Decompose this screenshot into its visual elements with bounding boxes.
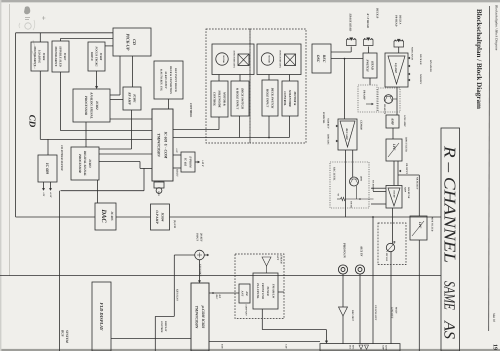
svg-text:CONTROL: CONTROL (189, 103, 193, 117)
AM loop ant box (239, 284, 250, 303)
svg-text:R – CHANNEL: R – CHANNEL (440, 145, 459, 263)
wire head switch to pb amp (369, 78, 371, 85)
bias +B line with VR601 (346, 198, 374, 200)
svg-text:MOTOR &: MOTOR & (293, 91, 297, 107)
deck A motor (216, 53, 228, 65)
deck B motor solenoid control (282, 81, 298, 116)
svg-text:RF AMP: RF AMP (127, 92, 131, 105)
svg-text:FRONT END: FRONT END (261, 283, 264, 299)
svg-text:AUX IN: AUX IN (360, 245, 364, 257)
svg-text:CD LINE OUT: CD LINE OUT (374, 305, 377, 321)
svg-text:REC AMP: REC AMP (345, 128, 348, 140)
svg-text:FOCUS TRCKG: FOCUS TRCKG (95, 47, 99, 68)
svg-text:PB MUTE: PB MUTE (383, 104, 386, 115)
wire processor to RF amp (110, 99, 123, 101)
svg-text:DECK B: DECK B (376, 7, 379, 18)
svg-text:TMP47C850N: TMP47C850N (157, 133, 161, 157)
svg-text:Blockschaltplan / Block Diagra: Blockschaltplan / Block Diagram (495, 5, 499, 51)
svg-text:+12 V: +12 V (201, 160, 204, 167)
svg-text:ANT: ANT (240, 290, 243, 297)
rec out open arrow (339, 307, 348, 316)
svg-text:CD: CD (28, 115, 38, 128)
svg-text:SYSTEM: SYSTEM (65, 330, 69, 344)
wire analog processor to ucom (110, 118, 152, 120)
svg-text:IC 609: IC 609 (45, 162, 50, 174)
u-com IC601 TMP47C850N (152, 109, 173, 181)
svg-text:SOLENOIDE: SOLENOIDE (288, 90, 292, 107)
svg-text:IC603: IC603 (88, 158, 92, 168)
svg-text:PB VOL: PB VOL (385, 253, 388, 262)
svg-text:IC 602: IC 602 (184, 157, 188, 167)
wire rec amp to rec level transistor (352, 150, 354, 177)
aux in jack (355, 265, 364, 274)
svg-text:PROCESSOR: PROCESSOR (78, 154, 82, 173)
deck B mech links (268, 75, 270, 81)
E2PROM IC602 (181, 152, 195, 172)
svg-text:B/P: B/P (218, 294, 221, 299)
svg-text:CONTROL: CONTROL (160, 321, 163, 333)
svg-text:AM: AM (245, 290, 248, 296)
svg-text:DISPLAY: DISPLAY (164, 320, 167, 332)
svg-text:MPX FILTER: MPX FILTER (431, 216, 434, 232)
wire tuner down to selector (261, 309, 263, 330)
svg-text:IC 601 U - COM: IC 601 U - COM (164, 131, 168, 159)
svg-text:BUS: BUS (61, 329, 65, 337)
margin rule right (488, 6, 491, 331)
svg-text:DECK SWITCH: DECK SWITCH (271, 87, 275, 109)
wire servo bus upper (60, 130, 152, 132)
tuner dashed enclosure (235, 254, 284, 319)
wire fld to ucom2 (111, 338, 191, 340)
key scan line (173, 255, 175, 316)
svg-text:DECK & CD POSITION: DECK & CD POSITION (169, 65, 172, 95)
transistor Q605 (350, 177, 359, 186)
volume dashed box (378, 223, 406, 265)
svg-text:PROCESSOR: PROCESSOR (84, 96, 88, 116)
svg-text:DECK A: DECK A (399, 14, 402, 25)
svg-text:DOLBY: DOLBY (393, 189, 396, 198)
svg-text:Blockschaltplan / Block Diagra: Blockschaltplan / Block Diagram (475, 9, 483, 109)
wire dsp to ucom 1 (99, 153, 152, 155)
dolby nr box (386, 186, 402, 209)
deck A motor solenoid control (211, 81, 228, 117)
svg-text:REC OUT: REC OUT (351, 310, 354, 321)
svg-text:IC604: IC604 (161, 212, 165, 222)
FLD display (92, 282, 111, 351)
page border left (8, 4, 10, 276)
scan edge band left (0, 0, 1, 351)
svg-text:μ-COM IC603: μ-COM IC603 (201, 305, 205, 329)
wire dsp to ucom 2 (99, 161, 140, 163)
svg-text:OSC: OSC (316, 55, 320, 63)
wire pickup feed 3 (105, 45, 113, 47)
scan edge band bottom (0, 349, 500, 351)
IC604 op amp (151, 204, 170, 230)
+12V stub (195, 161, 198, 163)
svg-text:Mai 93: Mai 93 (492, 312, 496, 323)
wire rec amp down to L-CH line (344, 150, 346, 217)
stamp smudge top-left (19, 6, 35, 69)
antenna symbol (262, 257, 271, 266)
wire RF amp to DSP (131, 110, 133, 149)
svg-text:32 KEY INPUT: 32 KEY INPUT (164, 70, 167, 89)
wire ic606 down to bus (39, 71, 41, 139)
wire left loop vertical (15, 33, 17, 217)
bias filter lpf box (386, 139, 402, 161)
wire dolby to volume (392, 208, 394, 243)
wire rec osc to erase head (331, 51, 351, 53)
svg-text:IC601: IC601 (133, 93, 137, 103)
svg-text:MOTOR: MOTOR (222, 54, 225, 63)
svg-text:VR 601: VR 601 (350, 201, 353, 208)
section divider line (0, 275, 441, 277)
svg-text:KEY SCAN: KEY SCAN (176, 288, 179, 301)
E2PROM links (173, 154, 181, 156)
svg-text:BIAS FILTER: BIAS FILTER (405, 136, 408, 152)
svg-text:FLD DISPLAY: FLD DISPLAY (99, 303, 104, 332)
svg-text:Q605: Q605 (360, 176, 363, 182)
IC608 focus tracking drive (88, 42, 105, 71)
svg-text:SEL: SEL (349, 345, 352, 350)
svg-text:(L)-CH: (L)-CH (173, 220, 176, 229)
svg-text:IC608: IC608 (99, 52, 103, 61)
wire ucom2 to tuner (209, 292, 239, 294)
ic609 -15V stub (50, 182, 52, 189)
IC603 digital signal processor (71, 147, 99, 180)
svg-text:DECK SWITCH: DECK SWITCH (241, 87, 245, 109)
wire lpf to dolby pair (393, 161, 395, 186)
28-key input connector (195, 250, 205, 260)
svg-text:+5V: +5V (42, 192, 45, 197)
phono in jack (338, 265, 347, 274)
svg-text:X601: X601 (157, 190, 160, 196)
svg-text:DAC: DAC (100, 208, 107, 223)
svg-text:LOADING: LOADING (38, 49, 42, 64)
deck B solenoid (285, 54, 296, 66)
svg-text:DECK A/B: DECK A/B (419, 53, 422, 65)
wire cd line out (372, 217, 374, 344)
tuner box (253, 273, 278, 309)
CD pick-up box (113, 28, 151, 56)
rec osc box (312, 44, 331, 73)
svg-text:FM/AM/LW: FM/AM/LW (271, 284, 274, 299)
wire key matrix left (174, 254, 194, 256)
svg-text:IC606: IC606 (42, 52, 46, 61)
svg-text:+5 V: +5 V (175, 148, 178, 153)
wire ucom2 to selector (209, 341, 320, 343)
rec amp box (338, 119, 357, 150)
svg-text:CD: CD (132, 39, 137, 45)
wire analog to digital processor (85, 122, 87, 147)
pb mute transistor (384, 95, 393, 104)
wire tuner out right (278, 291, 284, 293)
svg-text:E²PROM: E²PROM (188, 155, 192, 168)
crystal X601 (154, 182, 164, 188)
deck A pb head (394, 41, 404, 47)
svg-text:EQ AMP: EQ AMP (394, 62, 397, 73)
svg-text:19: 19 (492, 344, 498, 350)
IC606 loading motor drive (31, 42, 48, 71)
control bus B (173, 137, 289, 139)
svg-text:TO DOLBY: TO DOLBY (372, 180, 375, 192)
deck B dashed enclosure (250, 29, 306, 143)
svg-text:KEY INPUT: KEY INPUT (199, 263, 202, 277)
svg-text:PB AMP: PB AMP (363, 90, 366, 100)
wire ic607 down to bus (59, 72, 61, 131)
svg-text:& HOLE INPUT: & HOLE INPUT (236, 88, 240, 110)
svg-text:IC607: IC607 (63, 52, 67, 61)
wire ic608 to analog processor (96, 71, 98, 87)
svg-text:TUNER: TUNER (266, 286, 269, 296)
svg-text:REC: REC (352, 345, 355, 350)
deck B switch hole input (262, 80, 278, 116)
display control jog (155, 315, 174, 317)
wire key right stub (204, 254, 207, 256)
wire mpx down (418, 240, 420, 351)
svg-text:ANALOG SIGNAL: ANALOG SIGNAL (89, 91, 93, 118)
wire rec osc to head switch (331, 58, 363, 60)
wire ic609 riser (47, 139, 49, 155)
svg-text:+B: +B (337, 193, 340, 196)
IC607 spindle sled motor drive (52, 41, 69, 72)
svg-text:O.P AMP: O.P AMP (155, 210, 159, 224)
svg-text:BIAS OSC: BIAS OSC (327, 133, 330, 145)
svg-text:DOLBY NR: DOLBY NR (407, 186, 410, 199)
wire amp to lpf (392, 128, 394, 139)
wire pickup down to RF amp (132, 56, 134, 87)
svg-text:SPINDLE SLED: SPINDLE SLED (59, 46, 63, 67)
RF amp (123, 87, 141, 110)
svg-text:AS: AS (440, 320, 457, 339)
svg-text:28-KEY: 28-KEY (200, 232, 203, 242)
IC602 analog signal processor (73, 89, 110, 122)
svg-text:PICK-UP: PICK-UP (125, 34, 130, 51)
svg-text:CONTROL: CONTROL (213, 92, 217, 106)
svg-text:KEY INPUT BLOCK: KEY INPUT BLOCK (174, 67, 177, 92)
svg-text:R / P HEAD: R / P HEAD (366, 14, 369, 28)
wire aux down (359, 274, 361, 344)
wire phono down (342, 274, 344, 307)
svg-text:MOTOR DRIVE: MOTOR DRIVE (33, 45, 37, 66)
svg-text:±15V: ±15V (49, 192, 52, 198)
svg-text:MOTOR: MOTOR (268, 54, 271, 63)
svg-text:DIGITAL SIGNAL: DIGITAL SIGNAL (83, 150, 87, 176)
eq amp box (385, 53, 408, 87)
deck B motor (261, 53, 273, 65)
deck A solenoid (238, 54, 249, 66)
wire pickup feed 1 (16, 32, 113, 34)
wire volume to line out (390, 252, 392, 344)
input selector box (320, 344, 400, 351)
svg-text:INPUT: INPUT (196, 232, 199, 241)
svg-text:IC 605: IC 605 (110, 211, 114, 221)
svg-text:AMP: AMP (382, 344, 385, 350)
svg-text:REC: REC (322, 55, 326, 63)
svg-text:LOOP ANT: LOOP ANT (245, 304, 248, 317)
mpx lpf box (410, 216, 427, 240)
deck A dashed enclosure (206, 29, 250, 143)
svg-text:CD POWER SUPPLY: CD POWER SUPPLY (60, 145, 63, 171)
deck B mech box (257, 44, 301, 75)
svg-text:LINE OUT: LINE OUT (391, 306, 394, 319)
wire key to ucom2 (199, 260, 201, 281)
svg-text:MAIN: MAIN (395, 306, 398, 314)
system bus from ucom (143, 168, 145, 190)
svg-text:REC: REC (215, 295, 218, 300)
svg-text:AMP: AMP (404, 186, 407, 193)
svg-text:TMP47C850N: TMP47C850N (194, 306, 198, 329)
wire eq amp to amp (396, 87, 398, 115)
svg-text:B MECHA: B MECHA (322, 111, 325, 124)
svg-text:LINE: LINE (385, 344, 388, 351)
u-com IC603 TMP47C850N (191, 283, 209, 351)
svg-text:CONTROL: CONTROL (283, 91, 287, 105)
svg-text:NOR LATCH: NOR LATCH (411, 46, 414, 60)
wire servo bus lower (40, 138, 152, 140)
svg-text:PB INPUT: PB INPUT (405, 163, 408, 174)
svg-text:ANT: ANT (276, 254, 279, 260)
svg-text:NOR/REV: NOR/REV (327, 117, 330, 129)
rec/pb head (364, 39, 374, 45)
svg-text:DRIVE: DRIVE (90, 51, 94, 61)
IC605 DAC (95, 203, 116, 230)
svg-text:IC602: IC602 (95, 100, 99, 110)
svg-text:HEAD: HEAD (370, 60, 374, 71)
svg-text:SAME: SAME (440, 281, 457, 310)
svg-text:MOTOR &: MOTOR & (222, 91, 226, 107)
wire key block to ucom (168, 99, 170, 109)
IC609 CD power supply (38, 155, 57, 182)
svg-text:PB HEAD: PB HEAD (395, 15, 398, 26)
wire dsp to DAC (97, 180, 99, 203)
svg-text:MOTOR DRIVE: MOTOR DRIVE (54, 45, 58, 66)
volume pot (386, 243, 394, 251)
line amp box (386, 115, 399, 128)
svg-text:NR SELECT: NR SELECT (416, 176, 419, 190)
wire pickup feed 2 (60, 38, 113, 40)
L-CH audio line (16, 216, 95, 218)
svg-text:& AUTO REV. SYS.: & AUTO REV. SYS. (159, 69, 162, 92)
wire pickup down to processor (119, 56, 121, 95)
svg-text:AMP: AMP (390, 117, 394, 125)
svg-text:B DECK MECHA: B DECK MECHA (279, 49, 282, 68)
wire rp head to head switch (368, 47, 370, 54)
svg-text:B/N SPEED: B/N SPEED (429, 59, 432, 72)
svg-text:A IN: A IN (285, 343, 288, 349)
svg-text:NOR/REV: NOR/REV (419, 73, 422, 85)
pb mute dotted box (378, 88, 400, 112)
deck A mech box (212, 44, 254, 75)
PB amp dotted box deck B (358, 85, 377, 112)
svg-text:ERASE HEAD: ERASE HEAD (348, 13, 351, 32)
banner box R-CHANNEL SAME AS (441, 128, 460, 351)
svg-text:PHONO IN: PHONO IN (343, 243, 347, 259)
svg-text:HOLE INPUT: HOLE INPUT (266, 88, 270, 107)
key input block (154, 61, 183, 99)
control bus A (173, 129, 219, 131)
wire rec amp to heads (344, 59, 346, 119)
pb output branch (398, 174, 419, 176)
erase head (347, 39, 357, 45)
rec level dotted box (330, 162, 369, 208)
wire ic606 riser (39, 33, 41, 42)
wire pb head to eq amp (398, 47, 400, 53)
svg-text:RESET: RESET (176, 169, 179, 177)
svg-text:PLL SYNTH.: PLL SYNTH. (256, 283, 259, 299)
svg-text:SWITCH: SWITCH (365, 59, 369, 72)
svg-text:A DECK MECHA: A DECK MECHA (233, 49, 236, 68)
scan edge band top (0, 0, 500, 2)
svg-text:B IN: B IN (221, 343, 224, 349)
wires rec level to dolby (371, 187, 386, 189)
svg-text:LINE AMP: LINE AMP (403, 114, 406, 127)
svg-text:REC LEVEL: REC LEVEL (333, 167, 336, 181)
deck A switch hole input (231, 81, 249, 116)
svg-text:CX20188: CX20188 (360, 120, 363, 130)
head switch box (363, 53, 377, 78)
deck A mech links (218, 75, 220, 82)
svg-text:SOLENOIDE: SOLENOIDE (218, 90, 222, 107)
ic609 +5V stub (43, 182, 45, 189)
